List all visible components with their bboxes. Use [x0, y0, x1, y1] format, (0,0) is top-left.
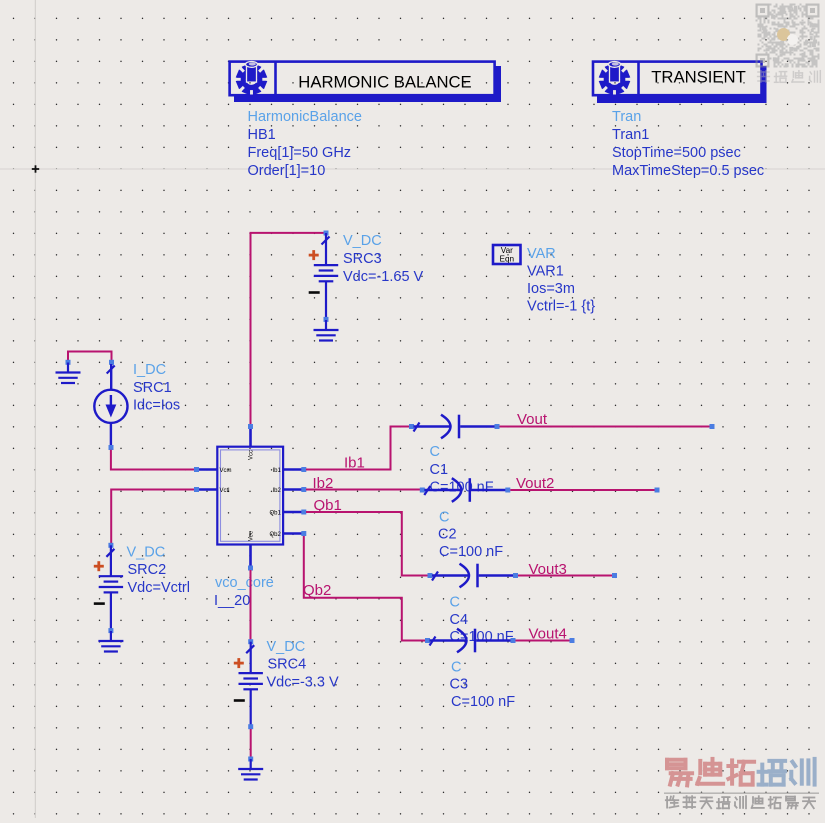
C2 labels — [438, 510, 503, 561]
vco_core block I__20 — [194, 424, 306, 571]
simulation controller box HARMONIC BALANCE — [230, 61, 501, 102]
svg-text:Vcc: Vcc — [249, 450, 255, 460]
svg-text:C: C — [439, 510, 449, 526]
svg-text:C=100 nF: C=100 nF — [439, 544, 503, 560]
svg-text:Vdc=-1.65 V: Vdc=-1.65 V — [343, 269, 424, 285]
svg-text:StopTime=500 psec: StopTime=500 psec — [612, 145, 741, 161]
wire ground to SRC1 top — [68, 352, 112, 361]
svg-text:C=100 nF: C=100 nF — [451, 694, 515, 710]
ground for SRC3 — [314, 320, 339, 341]
capacitor C3 — [425, 629, 516, 653]
svg-text:C: C — [430, 444, 440, 460]
svg-text:Vdc=-3.3 V: Vdc=-3.3 V — [267, 675, 339, 691]
svg-text:SRC1: SRC1 — [133, 380, 172, 396]
svg-text:C: C — [450, 595, 460, 611]
simulation controller box TRANSIENT — [593, 61, 767, 103]
svg-text:VAR1: VAR1 — [527, 264, 564, 280]
current source I_DC SRC1 — [94, 360, 127, 450]
svg-text:MaxTimeStep=0.5 psec: MaxTimeStep=0.5 psec — [612, 163, 764, 179]
svg-text:C4: C4 — [450, 612, 469, 628]
svg-text:Ib2: Ib2 — [272, 488, 281, 494]
svg-text:Vctrl=-1 {t}: Vctrl=-1 {t} — [527, 299, 595, 315]
svg-text:Freq[1]=50 GHz: Freq[1]=50 GHz — [248, 145, 352, 161]
svg-text:V_DC: V_DC — [343, 233, 382, 249]
svg-text:Ib1: Ib1 — [272, 468, 281, 474]
SRC4 labels — [267, 639, 339, 691]
harmonic balance parameter text HB1 — [248, 109, 362, 179]
svg-text:HarmonicBalance: HarmonicBalance — [248, 109, 362, 125]
svg-text:vco_core: vco_core — [215, 575, 274, 591]
voltage source V_DC SRC3 — [309, 231, 339, 322]
svg-text:I__20: I__20 — [214, 593, 250, 609]
voltage source V_DC SRC4 — [234, 639, 263, 729]
svg-text:V_DC: V_DC — [127, 545, 166, 561]
svg-text:Ib1: Ib1 — [344, 455, 365, 472]
wire SRC4 to ground — [250, 729, 252, 759]
svg-text:Vout2: Vout2 — [516, 475, 554, 492]
svg-text:Qb1: Qb1 — [269, 510, 281, 516]
wire Ib2 from vco to C2 — [306, 489, 420, 491]
svg-text:SRC4: SRC4 — [268, 657, 307, 673]
svg-text:Vout4: Vout4 — [529, 626, 567, 643]
wire Ib1 from vco to C1 — [306, 427, 409, 470]
SRC3 labels — [343, 233, 424, 285]
capacitor C2 — [420, 478, 511, 502]
origin cross marker — [32, 165, 39, 172]
ground for SRC2 — [98, 631, 123, 652]
svg-text:HB1: HB1 — [248, 127, 276, 143]
svg-text:VAR: VAR — [527, 246, 556, 262]
svg-text:C1: C1 — [430, 462, 449, 478]
svg-text:Vctl: Vctl — [220, 488, 230, 494]
svg-text:Idc=Ios: Idc=Ios — [133, 398, 180, 414]
wire SRC2 to vco Vctl pin — [111, 490, 196, 544]
svg-text:SRC2: SRC2 — [128, 562, 167, 578]
wire Qb2 from vco to C3 — [304, 536, 425, 641]
svg-text:C2: C2 — [438, 527, 457, 543]
capacitor C4 — [428, 564, 519, 588]
svg-text:C3: C3 — [450, 677, 469, 693]
transient parameter text Tran1 — [612, 109, 764, 179]
vco_core labels — [214, 575, 274, 609]
watermark logo — [664, 759, 819, 809]
VAR1 labels — [527, 246, 595, 315]
svg-text:HARMONIC BALANCE: HARMONIC BALANCE — [298, 73, 471, 92]
svg-text:Vcm: Vcm — [220, 468, 232, 474]
ground at SRC1 input — [56, 360, 81, 383]
svg-text:Tran1: Tran1 — [612, 127, 649, 143]
svg-text:Qb1: Qb1 — [314, 497, 342, 514]
capacitor C1 — [409, 415, 500, 439]
wire Qb1 from vco to C4 — [306, 512, 428, 576]
C4 labels — [450, 595, 514, 646]
SRC1 labels — [133, 362, 180, 414]
svg-text:Ib2: Ib2 — [313, 475, 334, 492]
svg-text:Order[1]=10: Order[1]=10 — [248, 163, 326, 179]
svg-text:I_DC: I_DC — [133, 362, 166, 378]
wire SRC1 to vco Vcm pin — [111, 450, 196, 470]
svg-text:Vout: Vout — [517, 411, 548, 428]
svg-text:SRC3: SRC3 — [343, 251, 382, 267]
svg-text:Tran: Tran — [612, 109, 641, 125]
wire Vout — [500, 424, 715, 429]
voltage source V_DC SRC2 — [94, 543, 123, 633]
wire vco Vee to SRC4 — [250, 570, 252, 642]
svg-text:Eqn: Eqn — [500, 255, 515, 264]
wire Vout4 — [516, 638, 575, 643]
wire vco Vcc node to SRC3 — [251, 233, 327, 427]
wire Vout3 — [518, 573, 617, 578]
SRC2 labels — [127, 545, 190, 597]
variable equation block VAR1 — [493, 245, 521, 264]
QR code watermark — [756, 4, 820, 68]
svg-text:Vdc=Vctrl: Vdc=Vctrl — [128, 580, 190, 596]
svg-text:Ios=3m: Ios=3m — [527, 281, 575, 297]
svg-text:Vee: Vee — [249, 530, 255, 541]
svg-text:Qb2: Qb2 — [303, 582, 331, 599]
wire Vout2 — [510, 488, 659, 493]
svg-text:Qb2: Qb2 — [269, 532, 281, 538]
svg-text:TRANSIENT: TRANSIENT — [651, 68, 746, 87]
svg-text:Vout3: Vout3 — [529, 561, 567, 578]
ground for SRC4 — [238, 757, 263, 780]
svg-text:C: C — [451, 660, 461, 676]
C1 labels — [430, 444, 494, 496]
svg-text:V_DC: V_DC — [267, 639, 306, 655]
C3 labels — [450, 660, 516, 711]
